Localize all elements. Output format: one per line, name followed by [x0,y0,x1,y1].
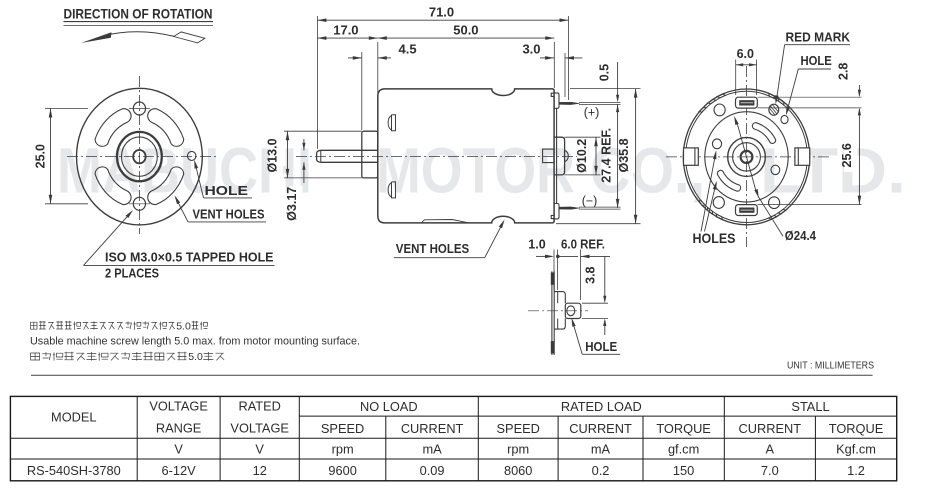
side view rear shaft bump [565,151,569,162]
svg-text:3.0: 3.0 [522,42,540,57]
side view rear bearing (inside can) [543,149,554,163]
dimension 50.0 [378,22,555,88]
note line 2 (English) [30,336,360,348]
svg-text:HOLE: HOLE [801,53,833,68]
spec table data row RS-540SH-3780 [27,463,865,478]
svg-text:DIRECTION OF ROTATION: DIRECTION OF ROTATION [64,7,213,22]
terminal detail mounting plate [551,271,554,355]
terminal detail hole [567,306,575,316]
dimension 25.0 [34,109,88,204]
side view (+) brush tab [551,93,559,108]
svg-text:VOLTAGE: VOLTAGE [230,421,289,436]
svg-text:71.0: 71.0 [429,5,454,20]
svg-text:Ø13.0: Ø13.0 [266,138,280,172]
side view bottom vent slot mark [388,182,395,198]
svg-text:0.09: 0.09 [420,463,445,478]
svg-text:CURRENT: CURRENT [739,421,802,436]
svg-text:0.2: 0.2 [592,463,610,478]
svg-text:MODEL: MODEL [51,410,97,425]
svg-text:CURRENT: CURRENT [569,421,632,436]
front view bottom tapped hole [129,197,150,210]
svg-text:25.0: 25.0 [34,144,48,168]
side view motor can body [378,89,554,223]
svg-text:rpm: rpm [332,441,354,456]
side view front bearing hub [362,131,378,178]
rear view small hole near red mark [781,115,788,123]
svg-text:HOLES: HOLES [693,231,736,246]
front view lower-right vent slot [148,167,184,205]
side view shaft [317,150,378,162]
svg-text:4.5: 4.5 [399,42,417,57]
rear view right middle hole [771,165,780,174]
dimension 3.8 [582,256,608,335]
svg-text:9600: 9600 [328,463,356,478]
svg-text:V: V [255,441,264,456]
svg-text:VENT HOLES: VENT HOLES [193,208,265,222]
front view bearing boss outer circle [117,132,162,181]
side view (-) terminal [559,207,580,209]
svg-text:150: 150 [673,463,694,478]
terminal detail terminal lug [565,303,581,318]
svg-text:RATED LOAD: RATED LOAD [561,399,642,414]
svg-text:TORQUE: TORQUE [829,421,884,436]
label UNIT MILLIMETERS [787,360,874,372]
svg-text:UNIT : MILLIMETERS: UNIT : MILLIMETERS [787,360,874,372]
svg-text:HOLE: HOLE [205,184,249,198]
front view shaft hole [133,150,145,163]
rear view outer flange circle [683,89,809,225]
spec table grid [10,396,896,480]
front view centerlines [67,76,216,234]
side view centerline [296,155,577,157]
spec table headers [51,399,883,436]
rear view endcap circle [705,112,788,202]
svg-text:1.2: 1.2 [847,463,865,478]
rear view bottom brush cap [736,205,758,216]
label HOLE (terminal detail) [572,318,621,355]
svg-text:RED MARK: RED MARK [786,30,851,45]
rear view boss inner circle [733,143,761,171]
dimension 4.5 [348,42,417,130]
note line 1 (Japanese) [31,320,208,332]
svg-text:(−): (−) [582,194,598,208]
svg-text:25.6: 25.6 [840,143,854,167]
rear view left mounting tab [684,148,699,165]
svg-text:NO LOAD: NO LOAD [360,399,418,414]
rotation direction arrow (swoosh) [81,32,205,43]
rear view red mark (hatched) [769,104,779,115]
svg-text:8060: 8060 [504,463,532,478]
rear view lower-right hole [769,197,780,209]
rear view boss outer circle [728,137,766,176]
svg-text:(+): (+) [584,106,600,120]
side view bottom louver [421,220,468,223]
rear view upper-left hole [714,104,725,116]
rear view centerlines [666,66,829,247]
svg-text:CURRENT: CURRENT [401,421,464,436]
dimension 17.0 [317,22,377,131]
svg-text:3.8: 3.8 [583,266,597,283]
label VENT HOLES (front view) [175,195,267,222]
svg-text:VENT HOLES: VENT HOLES [396,241,470,256]
label HOLES [693,150,736,246]
terminal detail centerline [528,310,588,312]
note line 3 (Chinese) [31,351,225,363]
svg-text:LTD.: LTD. [760,134,906,206]
svg-text:Usable machine screw length 5.: Usable machine screw length 5.0 max. fro… [30,336,360,348]
front view top tapped hole [129,102,150,115]
front view upper-left vent slot [95,109,131,147]
svg-text:Ø3.17: Ø3.17 [285,187,299,221]
svg-text:Kgf.cm: Kgf.cm [836,441,876,456]
rear view lower-left hole [713,197,724,209]
front view small hole [188,151,196,160]
svg-text:RS-540SH-3780: RS-540SH-3780 [27,463,121,478]
dimension 1.0 [528,237,559,290]
label (+) terminal [584,106,600,120]
label diameter 24.4 [734,116,816,243]
svg-text:gf.cm: gf.cm [668,441,699,456]
svg-text:RATED: RATED [238,399,280,414]
spec table units row [174,441,876,456]
svg-text:TORQUE: TORQUE [656,421,711,436]
svg-text:MOTOR: MOTOR [376,134,575,206]
label HOLE (front view) [194,160,252,198]
svg-text:mA: mA [591,441,611,456]
label VENT HOLES (side view) [394,220,505,258]
svg-text:Ø10.2: Ø10.2 [575,139,589,173]
side view (+) terminal [559,102,580,104]
label (-) terminal [582,194,598,208]
svg-text:5.0: 5.0 [176,320,191,332]
svg-text:7.0: 7.0 [761,463,779,478]
dimension diameter 13.0 [266,131,362,178]
rear view top brush cap [736,97,758,108]
svg-text:SPEED: SPEED [497,421,540,436]
dimension 71.0 [317,5,568,149]
svg-text:RANGE: RANGE [156,421,202,436]
dimension diameter 35.8 [556,89,641,224]
front view bearing boss inner circle [121,137,157,176]
dimension 0.5 [579,62,621,104]
dimension 6.0 [736,47,757,95]
front view outer flange circle [76,88,202,225]
terminal detail brush holder block [554,292,565,330]
svg-text:6-12V: 6-12V [162,463,197,478]
label DIRECTION OF ROTATION [64,7,214,26]
svg-text:12: 12 [253,463,267,478]
side view top vent slot mark [388,115,395,131]
dimension 25.6 [758,109,862,205]
svg-text:Ø24.4: Ø24.4 [785,228,817,243]
svg-text:5.0: 5.0 [188,351,203,363]
svg-text:V: V [174,441,183,456]
label RED MARK [775,30,850,105]
svg-text:VOLTAGE: VOLTAGE [149,399,208,414]
rear view flange crimp marks [699,93,786,220]
svg-text:rpm: rpm [507,441,529,456]
dimension diameter 3.17 [285,139,306,221]
svg-text:STALL: STALL [791,399,829,414]
rear view upper-right vent slot [752,123,775,144]
svg-text:6.0 REF.: 6.0 REF. [561,237,605,251]
watermark MABUCHI MOTOR CO., LTD. [57,134,906,206]
svg-text:SPEED: SPEED [321,421,364,436]
rear view inner rim circle [686,91,808,222]
svg-text:50.0: 50.0 [453,22,478,37]
svg-text:27.4 REF.: 27.4 REF. [599,128,613,183]
svg-text:6.0: 6.0 [737,47,754,61]
svg-text:2 PLACES: 2 PLACES [105,266,159,281]
side view (-) brush tab [551,204,559,219]
separator line [31,374,873,376]
side view endcap boss [554,137,565,175]
dimension 2.8 [758,63,862,116]
rear view right mounting tab [795,148,810,165]
svg-text:1.0: 1.0 [528,237,545,251]
svg-text:A: A [766,441,775,456]
label HOLE (rear view) [786,53,832,115]
rear view lower-left vent slot [717,170,740,191]
svg-text:0.5: 0.5 [598,64,612,81]
rear view shaft hole [741,151,753,163]
rear view left middle hole [712,139,721,149]
dimension 3.0 [522,42,582,97]
side view endcap rim [556,108,558,203]
dimension 27.4 REF. [579,105,621,210]
dimension 6.0 REF. [558,237,610,300]
svg-text:HOLE: HOLE [585,339,617,354]
front view lower-left vent slot [95,167,131,205]
front view upper-right vent slot [148,109,184,147]
label ISO M3.0x0.5 TAPPED HOLE 2 PLACES [84,210,275,281]
svg-text:17.0: 17.0 [333,22,358,37]
svg-text:Ø35.8: Ø35.8 [617,138,631,172]
dimension diameter 10.2 [565,137,601,175]
svg-text:mA: mA [422,441,442,456]
svg-text:ISO M3.0×0.5 TAPPED HOLE: ISO M3.0×0.5 TAPPED HOLE [105,250,274,265]
svg-text:2.8: 2.8 [837,63,851,80]
